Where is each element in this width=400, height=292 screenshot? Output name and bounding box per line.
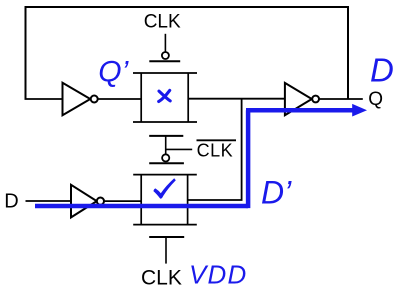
gate plate: TG1 top (CLK) [149, 60, 180, 62]
wire: TG1 output to inverter I3 input [188, 98, 284, 100]
signal path: blue top horizontal with arrowhead [246, 104, 367, 117]
svg-text:D: D [370, 51, 394, 88]
wire: bottom CLK stem [165, 237, 167, 264]
wire: CLKB label branch [166, 148, 193, 150]
wire: inverter I2 output to TG2 (node D') [104, 200, 141, 202]
transmission gate TG2 (data, marked check) [133, 175, 197, 225]
label CLK-bar (CLKB) [197, 140, 237, 160]
wire: feedback right vertical segment (Q node down to output wire) [347, 6, 349, 99]
wire: feedback left vertical segment [25, 7, 27, 99]
inverter I3 (output inverter to Q) [285, 83, 319, 115]
gate plate: TG2 bottom (CLK) [149, 236, 184, 238]
svg-text:Q’: Q’ [98, 56, 129, 89]
svg-text:CLK: CLK [197, 140, 234, 160]
bubble: TG2 pMOS gate bubble (CLKB) [162, 154, 169, 161]
signal path: blue vertical rise [246, 110, 251, 208]
svg-text:D: D [4, 190, 18, 212]
gate plate: TG2 top (CLKB) [149, 162, 184, 164]
symbol: blue check mark (TG2 on) [154, 178, 176, 198]
wire: feedback top horizontal segment [25, 6, 350, 8]
bubble: TG1 pMOS gate bubble [162, 52, 169, 59]
wire: CLKB stem [165, 136, 167, 154]
svg-text:D’: D’ [261, 174, 292, 210]
wire: D input to inverter I2 [26, 200, 71, 202]
wire: inverter I3 output to Q [319, 98, 363, 100]
symbol: blue x mark (TG1 off) [159, 90, 171, 101]
svg-text:Q: Q [368, 89, 383, 110]
svg-text:CLK: CLK [144, 12, 181, 33]
inverter I1 (feedback inverter, output Q') [63, 83, 98, 115]
wire: inverter I1 output to transmission gate TG1 [98, 98, 141, 100]
transmission gate TG1 (feedback, marked x) [133, 73, 197, 122]
gate plate: TG1 bottom (CLKB) [149, 135, 183, 137]
wire: TG2 output up to latch node (junction) [188, 99, 242, 200]
signal path: blue highlighted D path (bottom horizontal) [35, 204, 248, 209]
wire: feedback to inverter I1 input [25, 98, 63, 100]
inverter I2 (D input inverter) [71, 185, 104, 218]
svg-text:VDD: VDD [189, 260, 248, 290]
wire: CLK stem to TG1 pMOS gate [164, 34, 166, 52]
svg-text:CLK: CLK [141, 267, 182, 290]
